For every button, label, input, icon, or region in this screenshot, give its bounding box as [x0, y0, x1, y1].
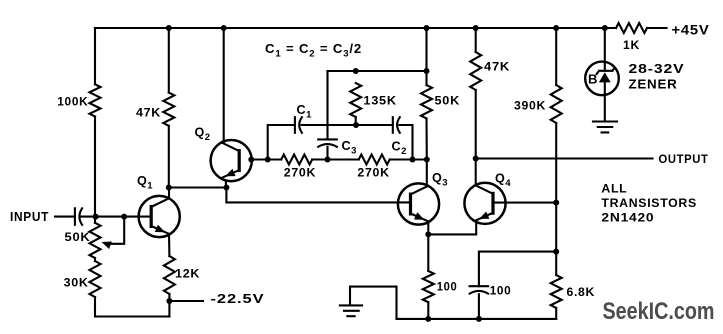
svg-text:50K: 50K [435, 93, 461, 107]
svg-text:1K: 1K [623, 38, 640, 52]
node C2 drop [410, 157, 416, 163]
ground symbol middle [340, 305, 362, 316]
wire Q4 emitter [428, 222, 476, 234]
wire top rail to +45V [647, 27, 667, 29]
svg-text:47K: 47K [136, 106, 161, 120]
svg-text:50K: 50K [65, 230, 91, 244]
node output / Q4 collector [473, 156, 479, 162]
wire C3 branch upper [326, 71, 328, 139]
node cap 100 ground [476, 316, 482, 322]
resistor R2 47K [163, 93, 174, 126]
node top rail / Q2 collector [221, 25, 227, 31]
svg-text:30K: 30K [64, 276, 89, 290]
wire 100K bottom to input node [94, 117, 96, 223]
svg-text:100K: 100K [57, 94, 88, 108]
resistor R3 12K [164, 256, 175, 294]
svg-text:2N1420: 2N1420 [601, 211, 654, 225]
capacitor 100uF [470, 285, 489, 287]
wire 30K bottom rail -22.5V [95, 297, 169, 317]
node top rail / 390K R8 [553, 25, 559, 31]
wire C1 left branch [268, 125, 295, 160]
wire to 6.8K [555, 252, 557, 275]
wire Q3 collector [426, 160, 428, 187]
wire 135K bottom [355, 117, 357, 125]
svg-text:100: 100 [490, 283, 512, 297]
wire top supply rail [95, 27, 616, 29]
wire Q1 collector [168, 188, 170, 199]
wire 47K right bottom [475, 90, 477, 159]
wire 47K bottom to Q1 collector node [168, 126, 170, 188]
svg-text:+45V: +45V [672, 23, 710, 38]
wire pot wiper [106, 217, 124, 244]
wire Q4 collector [475, 159, 477, 185]
wire 6.8K to ground rail [555, 308, 557, 319]
resistor 270K right [359, 155, 390, 165]
svg-text:SeekIC.com: SeekIC.com [603, 298, 715, 325]
resistor 1K [616, 23, 647, 33]
wire Q1 emitter to 12K [168, 234, 170, 256]
node Q1 collector / 47K [166, 185, 172, 191]
wire -22.5V stub [169, 300, 203, 302]
wire between 270K [312, 158, 359, 160]
resistor R5 30K [90, 261, 101, 297]
wire 390K node to cap 100 [479, 252, 556, 287]
wire C2 to 270K right node [399, 125, 412, 160]
svg-text:6.8K: 6.8K [567, 285, 596, 299]
svg-text:-22.5V: -22.5V [211, 292, 265, 306]
svg-text:B: B [588, 71, 597, 86]
capacitor input coupling [74, 208, 76, 225]
node top rail / 50K R6 [424, 25, 430, 31]
wire C1 to C2 [302, 124, 393, 126]
svg-text:OUTPUT: OUTPUT [659, 152, 709, 166]
node 390K / 6.8K / cap [553, 249, 559, 255]
wire emitters to 100 ohm [427, 234, 429, 271]
svg-text:390K: 390K [514, 98, 546, 112]
node -22.5V tap [166, 298, 172, 304]
wire 47K right top [475, 28, 477, 52]
transistor Q1 [139, 196, 180, 237]
node top rail / 47K R2 [166, 25, 172, 31]
zener diode B 28-32V [585, 62, 619, 96]
node top sub-rail / 50K column [424, 68, 430, 74]
resistor R1 100K [90, 84, 101, 116]
wire Q2 emitter [225, 181, 227, 188]
node input / 100K / pot [93, 214, 99, 220]
resistor 50K mid [421, 85, 432, 119]
svg-text:47K: 47K [484, 59, 510, 73]
wire output line [476, 157, 653, 159]
wire Q1-Q2 node link [169, 186, 227, 188]
node C1 branch [265, 157, 271, 163]
resistor 6.8K [551, 275, 562, 308]
wire 100 ohm to ground rail [427, 302, 429, 319]
svg-text:12K: 12K [175, 267, 200, 281]
wire 50K top [425, 28, 427, 85]
wire Q4 base node down [555, 203, 557, 252]
wire C3/135K top rail [328, 70, 427, 72]
transistor Q2 [211, 140, 252, 181]
wire C3 to 270K junction [326, 147, 328, 160]
wire Q4 base to 390K column [493, 202, 556, 204]
svg-text:ZENER: ZENER [629, 78, 678, 92]
resistor 390K [551, 85, 562, 123]
wire 390K to Q4 base node [555, 123, 557, 203]
wire Q3 emitter [427, 221, 429, 234]
node Q2 base [248, 157, 254, 163]
transistor Q3 [398, 183, 439, 224]
node Q4 base / 390K [553, 200, 559, 206]
wire ground trace [350, 287, 397, 319]
svg-text:INPUT: INPUT [10, 210, 49, 224]
resistor 135K [350, 83, 361, 117]
svg-text:270K: 270K [284, 166, 316, 180]
capacitor C3 [318, 138, 337, 140]
pot wiper arrow [102, 242, 112, 250]
wire 50K bottom [425, 119, 427, 160]
wire zener top [604, 28, 606, 71]
resistor 47K right [470, 52, 481, 90]
wire zener to ground [604, 82, 606, 121]
wire input lead [55, 216, 75, 218]
wire Q2 collector column [223, 28, 225, 143]
wire 390K top [555, 28, 557, 85]
capacitor C2 [392, 117, 394, 133]
wire Q2 base row left [252, 158, 281, 160]
node Q3/Q4 emitters [425, 231, 431, 237]
wire pot to 30K [94, 258, 96, 261]
svg-text:100: 100 [437, 279, 458, 293]
capacitor C1 [294, 117, 296, 133]
wire input cap to Q1 base [82, 216, 152, 218]
resistor 270K left [281, 155, 312, 165]
node input wiper junction [121, 214, 127, 220]
wire 12K bottom [168, 294, 170, 317]
svg-text:28-32V: 28-32V [629, 62, 685, 76]
ground symbol zener [593, 122, 617, 133]
wire 47K top [168, 28, 170, 93]
svg-text:270K: 270K [357, 166, 389, 180]
node 50K bottom [424, 157, 430, 163]
transistor Q4 [464, 183, 505, 224]
node 100 ohm ground [425, 316, 431, 322]
wire bottom ground rail [397, 318, 557, 320]
svg-text:TRANSISTORS: TRANSISTORS [601, 196, 697, 210]
node 135K top [353, 68, 359, 74]
node C3 bottom [325, 157, 331, 163]
node Q2 emitter junction [223, 185, 229, 191]
svg-text:ALL: ALL [601, 182, 627, 196]
wire Q2 emitter to Q3 base [226, 188, 410, 203]
wire 270K right to 50K [390, 158, 427, 160]
potentiometer R4 50K [90, 223, 101, 258]
node 135K / C1-C2 line [353, 122, 359, 128]
node top rail / zener branch [602, 25, 608, 31]
resistor 100 ohm [423, 271, 434, 302]
wire cap 100 to ground rail [478, 294, 480, 319]
svg-text:135K: 135K [363, 93, 396, 107]
node top rail / 47K R7 [473, 25, 479, 31]
wire 100K top [94, 28, 96, 84]
